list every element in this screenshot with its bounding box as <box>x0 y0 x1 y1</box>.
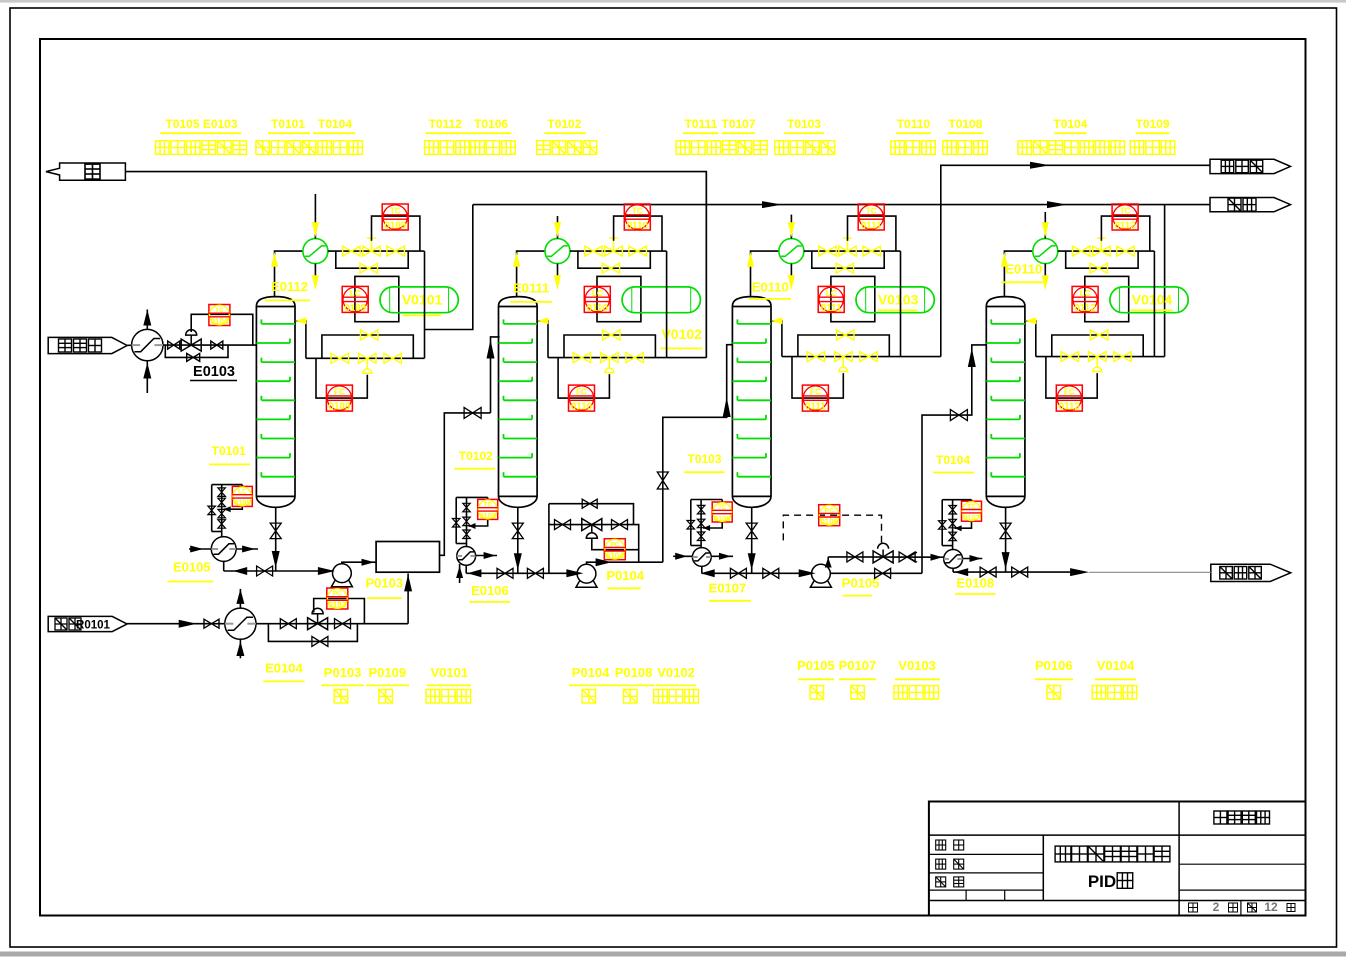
svg-text:T0106: T0106 <box>474 117 508 131</box>
column T0102 <box>499 297 538 508</box>
svg-text:0111: 0111 <box>861 220 882 231</box>
svg-text:P0106: P0106 <box>1035 658 1073 673</box>
control valve TV <box>605 238 623 256</box>
svg-text:P0108: P0108 <box>615 665 653 680</box>
label E0106 <box>470 583 511 602</box>
cumene product pipe <box>941 165 1210 356</box>
level gauge piping <box>212 485 243 532</box>
condenser E0112 <box>303 239 328 264</box>
flow arrow to pump <box>318 567 335 575</box>
svg-text:V0104: V0104 <box>1132 291 1173 307</box>
label V0103 reflux drum <box>894 658 940 699</box>
valve <box>860 352 878 362</box>
reflux bypass line <box>322 335 413 358</box>
svg-text:T0103: T0103 <box>687 452 721 466</box>
reflux control valve FV <box>835 352 853 372</box>
label T0101 <box>209 444 250 464</box>
valve <box>1117 246 1134 256</box>
bottoms valve <box>270 523 281 539</box>
pump bypass loop <box>549 504 639 574</box>
svg-text:P0105: P0105 <box>842 576 880 591</box>
control valve TV <box>363 238 380 256</box>
gauge valve <box>949 519 957 528</box>
stream label box 来自R0101 from R0101 <box>48 616 127 631</box>
svg-text:T0112: T0112 <box>429 117 463 131</box>
flow arrow <box>954 568 968 576</box>
cooling water outlet line <box>1044 264 1046 281</box>
reflux line to column <box>296 321 424 358</box>
arrow up <box>143 363 151 379</box>
instrument PC0104 <box>604 539 625 561</box>
signal line to TC0104 <box>191 314 253 345</box>
title text 第一工段 <box>1214 811 1270 824</box>
svg-text:T0102: T0102 <box>459 449 493 463</box>
label V0104 reflux drum <box>1092 658 1137 699</box>
reboiler riser to gauge <box>952 546 954 550</box>
instrument TC0104 <box>209 305 230 327</box>
stream label box 混合液 mixed feed <box>48 337 127 353</box>
control valve TV <box>1093 238 1111 256</box>
signal line to TC0109 <box>372 216 420 251</box>
flow arrow up <box>271 252 278 267</box>
reboiler steam outlet <box>236 546 258 553</box>
flow arrow <box>701 569 715 577</box>
equipment label T0110 heat exchanger <box>891 117 936 154</box>
instrument tap line <box>955 521 972 532</box>
flow arrow <box>362 559 375 566</box>
flow arrow to pump <box>799 569 816 577</box>
reflux arrow into column <box>295 317 306 324</box>
reflux drum V0104 <box>1110 287 1188 313</box>
svg-text:0109: 0109 <box>384 220 406 231</box>
svg-text:T0104: T0104 <box>936 453 970 467</box>
label P0108 pump <box>612 665 655 703</box>
svg-text:V0104: V0104 <box>1097 658 1135 673</box>
mixing block <box>376 542 439 573</box>
svg-text:0106: 0106 <box>714 514 731 523</box>
svg-text:LC: LC <box>1080 289 1091 298</box>
svg-text:E0111: E0111 <box>513 281 549 296</box>
feed bypass line <box>268 624 357 642</box>
gauge valve <box>218 520 226 529</box>
valve <box>204 619 219 628</box>
label E0112 <box>265 279 310 300</box>
svg-text:FC: FC <box>576 388 587 397</box>
valve <box>629 246 647 256</box>
pump P0105 <box>810 564 831 587</box>
svg-text:T0104: T0104 <box>318 117 352 131</box>
valve <box>899 552 915 562</box>
cooling water outlet line <box>557 264 559 281</box>
valve <box>612 520 628 530</box>
E0103 shell outlet line <box>146 361 148 393</box>
level control loop V0104 <box>1085 276 1129 321</box>
bypass valve <box>187 353 200 361</box>
reboiler steam outlet <box>475 552 497 559</box>
svg-text:0104: 0104 <box>211 317 229 326</box>
bottoms header <box>224 570 333 572</box>
svg-text:P0109: P0109 <box>369 665 407 680</box>
reboiler riser to gauge <box>466 544 468 547</box>
valve <box>211 341 223 349</box>
svg-text:TC: TC <box>967 503 976 510</box>
svg-text:E0110: E0110 <box>752 280 789 295</box>
propane product pipe <box>473 204 1210 206</box>
reflux valve <box>573 353 591 363</box>
bottoms header <box>702 572 812 574</box>
E0104 top stub <box>236 589 244 608</box>
label P0104 <box>606 568 644 588</box>
svg-text:T0110: T0110 <box>897 117 931 131</box>
svg-text:0105: 0105 <box>234 498 251 507</box>
valve <box>257 566 273 576</box>
feed bypass line <box>165 345 228 357</box>
column T0103 <box>732 297 771 508</box>
bottoms header <box>466 572 577 574</box>
column bottoms outlet line <box>275 507 277 571</box>
feed control valve <box>181 330 201 351</box>
pump discharge riser <box>825 557 846 568</box>
label P0107 pump <box>839 658 877 699</box>
valve <box>527 568 543 578</box>
svg-text:0112: 0112 <box>1059 402 1081 413</box>
instrument LC0111 <box>818 286 844 313</box>
signal line to FC0109 <box>316 358 367 398</box>
equipment label T0111 T0107 heat exchangers <box>676 117 767 154</box>
svg-text:PID: PID <box>1088 872 1116 891</box>
valve <box>555 520 571 530</box>
bottoms valve <box>1000 523 1011 539</box>
svg-text:0103: 0103 <box>329 601 347 610</box>
bypass valve <box>582 499 597 508</box>
bottoms flow arrow <box>748 553 756 570</box>
valve <box>168 341 180 349</box>
instrument LC0112 <box>1072 286 1098 313</box>
instrument TC0105 <box>478 499 498 520</box>
flow arrow <box>179 620 197 628</box>
pump P0103 <box>331 564 352 587</box>
flow arrow <box>762 201 782 208</box>
reboiler riser to gauge <box>221 532 223 537</box>
flow arrow <box>596 558 612 566</box>
cooling water inlet line <box>557 216 559 239</box>
svg-text:PC: PC <box>825 507 834 514</box>
valve <box>819 246 837 256</box>
gauge valve <box>697 505 705 514</box>
reboiler steam outlet <box>963 555 983 562</box>
valve <box>335 619 351 629</box>
cumene takeoff extension <box>901 356 941 358</box>
reflux bypass valve <box>603 330 621 340</box>
equipment label T0103 cumene column <box>775 117 835 154</box>
reflux bypass line <box>564 335 655 358</box>
reflux arrow into column <box>537 317 548 324</box>
cooling water inlet line <box>314 194 316 239</box>
cooling water inlet line <box>1044 212 1046 239</box>
valve <box>980 567 996 577</box>
valve <box>1073 246 1091 256</box>
svg-text:T0111: T0111 <box>685 117 718 131</box>
feed pipe from R0101 <box>127 623 225 625</box>
reboiler bottom connection <box>952 568 954 572</box>
svg-text:E0105: E0105 <box>173 560 211 575</box>
reboiler steam inlet <box>189 546 211 553</box>
bottoms header <box>953 571 1070 573</box>
E0103 shell inlet line <box>146 310 148 330</box>
instrument TC0112 <box>1112 204 1138 231</box>
cooling water inlet arrow <box>554 222 561 237</box>
reflux bypass valve <box>360 330 378 340</box>
label T0104 <box>933 453 974 473</box>
valve <box>1012 567 1028 577</box>
reboiler E0107 <box>692 548 711 567</box>
svg-text:TC: TC <box>390 206 401 215</box>
reflux bypass valve <box>1090 330 1108 340</box>
valve <box>847 552 863 562</box>
cooling water outlet arrow <box>788 275 795 290</box>
svg-text:V0103: V0103 <box>878 291 919 307</box>
instrument FC0110 <box>569 385 595 412</box>
gauge valve <box>208 506 216 514</box>
reflux drum V0101 <box>380 287 458 316</box>
signal line to PC0104 <box>592 539 639 550</box>
svg-text:TC: TC <box>215 307 224 314</box>
feed/bottoms exchanger E0103 <box>132 329 163 360</box>
condensate line with valves <box>570 250 667 252</box>
instrument tap line <box>224 506 243 512</box>
cooling water inlet arrow <box>1042 222 1049 237</box>
svg-text:0104: 0104 <box>606 551 624 560</box>
label E0110 <box>749 280 791 299</box>
valve <box>763 568 779 578</box>
gauge valve <box>463 503 470 512</box>
gauge valve <box>218 498 226 507</box>
equipment label T0105 E0103 heat exchangers <box>156 117 247 154</box>
distillate jog from V0101 to propane header <box>425 205 473 330</box>
level gauge piping <box>942 500 971 546</box>
column T0101 <box>256 297 295 508</box>
flow arrow to pump <box>566 569 583 577</box>
riser valve <box>657 472 668 489</box>
svg-text:E0108: E0108 <box>957 576 995 591</box>
vapour line column T0102 to condenser <box>517 251 545 297</box>
instrument TC0110 <box>624 204 650 231</box>
bypass valve <box>602 263 620 273</box>
svg-text:E0107: E0107 <box>709 581 747 596</box>
valve <box>464 407 481 418</box>
level gauge piping <box>691 500 722 546</box>
svg-text:V0103: V0103 <box>898 658 936 673</box>
control valve <box>582 519 602 539</box>
instrument FC0111 <box>802 385 828 412</box>
bottoms flow arrow <box>514 553 522 570</box>
reflux valve <box>331 353 349 363</box>
reflux drum V0103 <box>856 287 934 313</box>
label T0102 <box>454 449 495 469</box>
svg-text:R0101: R0101 <box>76 619 110 631</box>
top grey strip <box>0 0 1346 3</box>
propane takeoff extension <box>1154 356 1164 358</box>
instrument TC0109 <box>382 204 408 231</box>
cooling water outlet line <box>314 264 316 281</box>
label P0103 <box>366 576 404 599</box>
level control loop V0102 <box>597 276 641 321</box>
reflux arrow into column <box>1025 317 1036 324</box>
svg-text:0112: 0112 <box>1074 303 1096 314</box>
svg-text:P0107: P0107 <box>839 658 877 673</box>
level control loop V0103 <box>831 276 875 321</box>
stream label box 重芳烃 heavy aromatics <box>1211 564 1291 581</box>
bottom grey strip <box>0 952 1346 957</box>
svg-text:0112: 0112 <box>1114 220 1136 231</box>
flow arrow <box>1030 162 1050 169</box>
gauge valve <box>687 521 695 530</box>
label E0104 <box>263 661 304 682</box>
instrument LC0109 <box>342 286 368 313</box>
cooling water inlet line <box>790 215 792 239</box>
title text 异丙苯制备工段 <box>1055 846 1170 862</box>
valve <box>585 246 602 256</box>
reboiler E0105 <box>211 537 236 562</box>
svg-text:E0106: E0106 <box>471 583 509 598</box>
cooling water outlet line <box>790 264 792 281</box>
label 设计 <box>936 840 964 850</box>
dashed signal line PC0105 <box>783 515 881 543</box>
pump discharge line <box>342 562 376 564</box>
heated feed line <box>256 623 408 625</box>
svg-text:T0109: T0109 <box>1136 117 1170 131</box>
instrument PC0103 <box>327 588 348 610</box>
equipment label T0109 heat exchanger <box>1130 117 1175 154</box>
svg-text:P0104: P0104 <box>572 665 610 680</box>
svg-text:P0104: P0104 <box>606 568 644 583</box>
cooling water inlet arrow <box>788 222 795 237</box>
valve <box>626 353 644 363</box>
svg-text:T0101: T0101 <box>271 117 305 131</box>
reboiler steam inlet stub <box>456 564 463 583</box>
reboiler bottom connection <box>701 566 703 573</box>
column bottoms outlet line <box>517 507 519 573</box>
label P0106 pump <box>1035 658 1073 699</box>
svg-text:E0112: E0112 <box>271 279 308 294</box>
flow arrow <box>467 569 481 577</box>
equipment label T0112 T0106 heat exchangers <box>425 117 516 154</box>
bottoms valve <box>746 523 757 539</box>
svg-text:T0102: T0102 <box>547 117 581 131</box>
feed control valve <box>308 608 328 630</box>
bottoms flow arrow <box>1002 552 1010 569</box>
svg-text:P0103: P0103 <box>324 665 362 680</box>
propane riser from V0104 <box>1164 205 1166 357</box>
svg-text:0111: 0111 <box>805 402 826 413</box>
svg-text:0109: 0109 <box>329 402 351 413</box>
reboiler bottom connection <box>223 561 225 571</box>
svg-text:0105: 0105 <box>820 517 838 526</box>
valve <box>280 619 296 629</box>
label E0110 <box>1001 262 1043 283</box>
label E0105 <box>167 560 213 582</box>
signal line to FC0111 <box>792 357 843 399</box>
svg-text:LC: LC <box>350 289 361 298</box>
feed riser into block <box>404 574 412 624</box>
valve <box>730 568 746 578</box>
label V0101 reflux drum <box>426 665 471 703</box>
condensate line with valves <box>1058 250 1155 252</box>
reflux bypass line <box>1052 335 1143 357</box>
svg-text:V0101: V0101 <box>431 665 469 680</box>
column bottoms outlet line <box>1005 507 1007 572</box>
cooling water outlet arrow <box>554 275 561 290</box>
condensate line with valves <box>804 250 901 252</box>
svg-text:T0101: T0101 <box>212 444 246 458</box>
gauge valve <box>452 519 460 528</box>
vapour line column T0101 to condenser <box>275 251 303 297</box>
instrument FC0109 <box>326 385 352 412</box>
reflux control valve FV <box>601 353 619 373</box>
equipment label T0104 poly-cumene column <box>1018 117 1125 154</box>
feed pipe from 混合液 <box>127 344 131 346</box>
gauge valve <box>939 521 947 530</box>
reflux valve <box>1061 352 1079 362</box>
reflux bypass valve <box>837 330 855 340</box>
valve <box>343 246 361 256</box>
gauge valve <box>949 506 957 515</box>
svg-text:0110: 0110 <box>627 220 649 231</box>
instrument tap line <box>703 522 722 532</box>
title text PID图 <box>1088 872 1133 891</box>
instrument FC0112 <box>1056 385 1082 412</box>
reboiler steam inlet <box>908 552 943 562</box>
cooling water outlet arrow <box>1042 275 1049 290</box>
svg-text:T0108: T0108 <box>948 117 982 131</box>
reboiler E0106 <box>457 547 476 566</box>
stream label box 异丙苯 cumene <box>1210 159 1291 173</box>
gauge valve <box>463 530 470 539</box>
flow arrow up <box>747 252 754 267</box>
title block <box>929 802 1306 916</box>
drum outlet line V0101 <box>424 251 426 358</box>
heavy aromatics pipe <box>1089 571 1211 573</box>
bypass valve <box>360 263 378 273</box>
label E0111 <box>510 281 552 302</box>
column T0104 <box>986 297 1025 508</box>
svg-text:TC: TC <box>1120 206 1131 215</box>
label P0109 pump <box>366 665 409 703</box>
drum outlet line V0103 <box>900 251 902 357</box>
bypass valve <box>312 636 328 646</box>
stream label box 丙烷 propane <box>1210 198 1291 212</box>
bypass valve <box>875 568 891 578</box>
gauge valve <box>218 488 226 497</box>
svg-text:T0103: T0103 <box>787 117 821 131</box>
reflux line to column <box>772 321 900 357</box>
level control loop V0101 <box>355 276 399 321</box>
svg-text:0105: 0105 <box>479 511 496 520</box>
condensate bypass line <box>1066 251 1138 268</box>
svg-text:2: 2 <box>1213 900 1220 914</box>
reboiler E0108 <box>944 550 963 569</box>
flow arrow <box>233 567 247 575</box>
flow arrow up into T0104 <box>968 348 976 367</box>
signal line to TC0111 <box>848 216 896 251</box>
condenser E0111 <box>545 239 570 264</box>
label 制图 <box>936 859 964 869</box>
svg-text:E0110: E0110 <box>1005 262 1042 277</box>
svg-text:PC: PC <box>333 591 342 598</box>
control valve <box>873 543 893 563</box>
svg-text:T0104: T0104 <box>1053 117 1087 131</box>
signal line to FC0110 <box>558 358 609 399</box>
